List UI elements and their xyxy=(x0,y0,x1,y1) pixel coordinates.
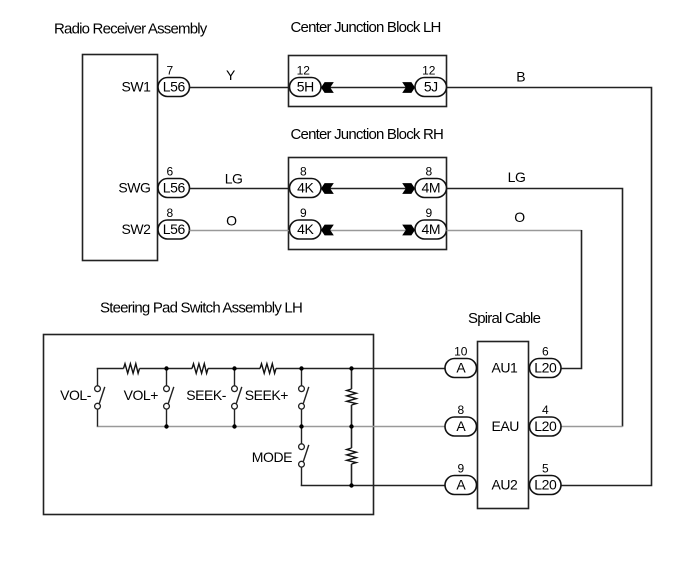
connector 4K pin 9 xyxy=(290,220,322,239)
wire gray to L20-4 xyxy=(561,426,623,428)
svg-text:4: 4 xyxy=(542,403,549,417)
connector L56 pin 7 (SW1) xyxy=(158,78,190,97)
arrow at 4M row1 pointing right xyxy=(402,183,415,194)
wire LG from 4M right then down xyxy=(447,189,623,427)
svg-text:A: A xyxy=(456,477,466,493)
junction dot SEEK+ top xyxy=(299,366,303,370)
svg-text:12: 12 xyxy=(422,64,436,78)
wire 5H to 5J inside block xyxy=(321,87,415,89)
switch MODE xyxy=(301,427,303,444)
resistor between SEEK- and SEEK+ xyxy=(260,364,276,374)
junction dot SEEK- bottom xyxy=(232,424,236,428)
connector 4M pin 8 xyxy=(415,179,447,198)
svg-text:12: 12 xyxy=(297,64,311,78)
connector L56 pin 8 (SW2) xyxy=(158,220,190,239)
svg-text:L20: L20 xyxy=(534,360,557,376)
connector 4M pin 9 xyxy=(415,220,447,239)
junction dot resistor middle xyxy=(349,424,353,428)
svg-text:Center Junction Block RH: Center Junction Block RH xyxy=(291,126,444,143)
svg-text:9: 9 xyxy=(457,462,464,476)
svg-text:LG: LG xyxy=(225,170,243,186)
svg-text:4K: 4K xyxy=(297,221,314,237)
arrow at 4K row2 pointing left xyxy=(321,225,334,236)
svg-text:Center Junction Block LH: Center Junction Block LH xyxy=(291,19,441,36)
svg-text:8: 8 xyxy=(425,165,432,179)
svg-text:7: 7 xyxy=(166,64,173,78)
wire down to L20-6 xyxy=(561,230,582,369)
connector 5J pin 12 xyxy=(415,78,447,97)
svg-text:O: O xyxy=(226,212,237,228)
svg-text:L20: L20 xyxy=(534,418,557,434)
connector L56 pin 6 (SWG) xyxy=(158,179,190,198)
svg-text:LG: LG xyxy=(508,169,526,185)
wire stub below lower vertical resistor xyxy=(351,464,353,486)
svg-text:Y: Y xyxy=(226,67,236,83)
connector A pin 9 (AU2) xyxy=(445,476,477,495)
arrow at 4M row2 pointing right xyxy=(402,225,415,236)
svg-text:MODE: MODE xyxy=(252,449,292,465)
svg-text:SEEK+: SEEK+ xyxy=(245,387,289,403)
connector L20 pin 5 (AU2) xyxy=(530,476,562,495)
Center Junction Block RH box xyxy=(289,158,447,250)
resistor between VOL+ and SEEK- xyxy=(192,364,208,374)
resistor between VOL- and VOL+ xyxy=(124,364,140,374)
wire LG from L56-6 to 4K xyxy=(190,188,291,190)
svg-text:8: 8 xyxy=(457,403,464,417)
connector 5H pin 12 xyxy=(290,78,322,97)
Steering Pad Switch Assembly LH box xyxy=(44,335,374,515)
svg-text:9: 9 xyxy=(300,206,307,220)
junction dot SEEK- top xyxy=(232,366,236,370)
switch SEEK- xyxy=(234,369,236,386)
svg-text:SWG: SWG xyxy=(118,180,150,196)
connector L20 pin 6 (AU1) xyxy=(530,359,562,378)
svg-text:A: A xyxy=(456,418,466,434)
wire stub above lower vertical resistor xyxy=(351,427,353,449)
wire bottom row MODE to A pin 9 xyxy=(301,485,445,487)
svg-text:9: 9 xyxy=(425,206,432,220)
wire 4K to 4M row 1 xyxy=(321,188,415,190)
switch VOL+ xyxy=(166,369,168,386)
svg-text:SW2: SW2 xyxy=(122,221,152,237)
svg-text:SW1: SW1 xyxy=(122,79,152,95)
svg-text:6: 6 xyxy=(166,165,173,179)
svg-text:4K: 4K xyxy=(297,180,314,196)
svg-text:4M: 4M xyxy=(422,180,441,196)
wire stub above upper vertical resistor xyxy=(351,369,353,390)
svg-text:AU2: AU2 xyxy=(492,477,519,493)
wire O from 4M right (gray) xyxy=(447,230,582,232)
connector A pin 8 (EAU) xyxy=(445,417,477,436)
resistor vertical lower xyxy=(347,448,357,464)
wire O from L56-8 to 4K row2 (gray) xyxy=(190,230,291,232)
svg-text:AU1: AU1 xyxy=(492,360,519,376)
svg-text:A: A xyxy=(456,360,466,376)
svg-text:5: 5 xyxy=(542,462,549,476)
connector A pin 10 (AU1) xyxy=(445,359,477,378)
connector 4K pin 8 xyxy=(290,179,322,198)
svg-text:SEEK-: SEEK- xyxy=(186,387,227,403)
Radio Receiver Assembly box xyxy=(83,55,158,261)
svg-text:Steering Pad Switch Assembly L: Steering Pad Switch Assembly LH xyxy=(100,299,302,316)
Spiral Cable box xyxy=(478,342,529,509)
svg-text:8: 8 xyxy=(166,206,173,220)
svg-text:B: B xyxy=(516,68,525,84)
svg-text:L56: L56 xyxy=(163,180,186,196)
wire middle row to A pin 8 (gray) xyxy=(97,426,445,428)
svg-text:8: 8 xyxy=(300,165,307,179)
svg-text:Radio Receiver Assembly: Radio Receiver Assembly xyxy=(54,21,208,38)
switch VOL- xyxy=(97,369,99,386)
svg-text:10: 10 xyxy=(454,345,468,359)
svg-text:L56: L56 xyxy=(163,221,186,237)
wire 4K to 4M row 2 (gray) xyxy=(321,230,415,232)
svg-text:O: O xyxy=(514,209,525,225)
wire B from 5J right then down to L20-5 xyxy=(447,88,652,486)
wire stub below upper vertical resistor xyxy=(351,405,353,427)
junction dot VOL+ bottom xyxy=(164,424,168,428)
arrow at 4K row1 pointing left xyxy=(321,183,334,194)
svg-text:VOL+: VOL+ xyxy=(124,387,159,403)
svg-text:4M: 4M xyxy=(422,221,441,237)
svg-text:L56: L56 xyxy=(163,79,186,95)
svg-text:5J: 5J xyxy=(424,79,438,95)
arrow at 5J pointing right xyxy=(402,82,415,93)
connector L20 pin 4 (EAU) xyxy=(530,417,562,436)
wire top row to A pin 10 xyxy=(97,368,445,370)
junction dot VOL+ top xyxy=(164,366,168,370)
svg-text:Spiral Cable: Spiral Cable xyxy=(468,310,541,327)
svg-text:6: 6 xyxy=(542,345,549,359)
svg-text:EAU: EAU xyxy=(492,418,520,434)
resistor vertical upper xyxy=(347,389,357,405)
Center Junction Block LH box xyxy=(289,56,447,107)
arrow at 5H pointing left xyxy=(321,82,334,93)
junction dot resistor bottom xyxy=(349,483,353,487)
wire Y from L56-7 to 5H xyxy=(190,87,291,89)
junction dot SEEK+/MODE xyxy=(299,424,303,428)
junction dot resistor top xyxy=(349,366,353,370)
svg-text:VOL-: VOL- xyxy=(60,387,92,403)
svg-text:L20: L20 xyxy=(534,477,557,493)
svg-text:5H: 5H xyxy=(297,79,314,95)
switch SEEK+ xyxy=(301,369,303,386)
